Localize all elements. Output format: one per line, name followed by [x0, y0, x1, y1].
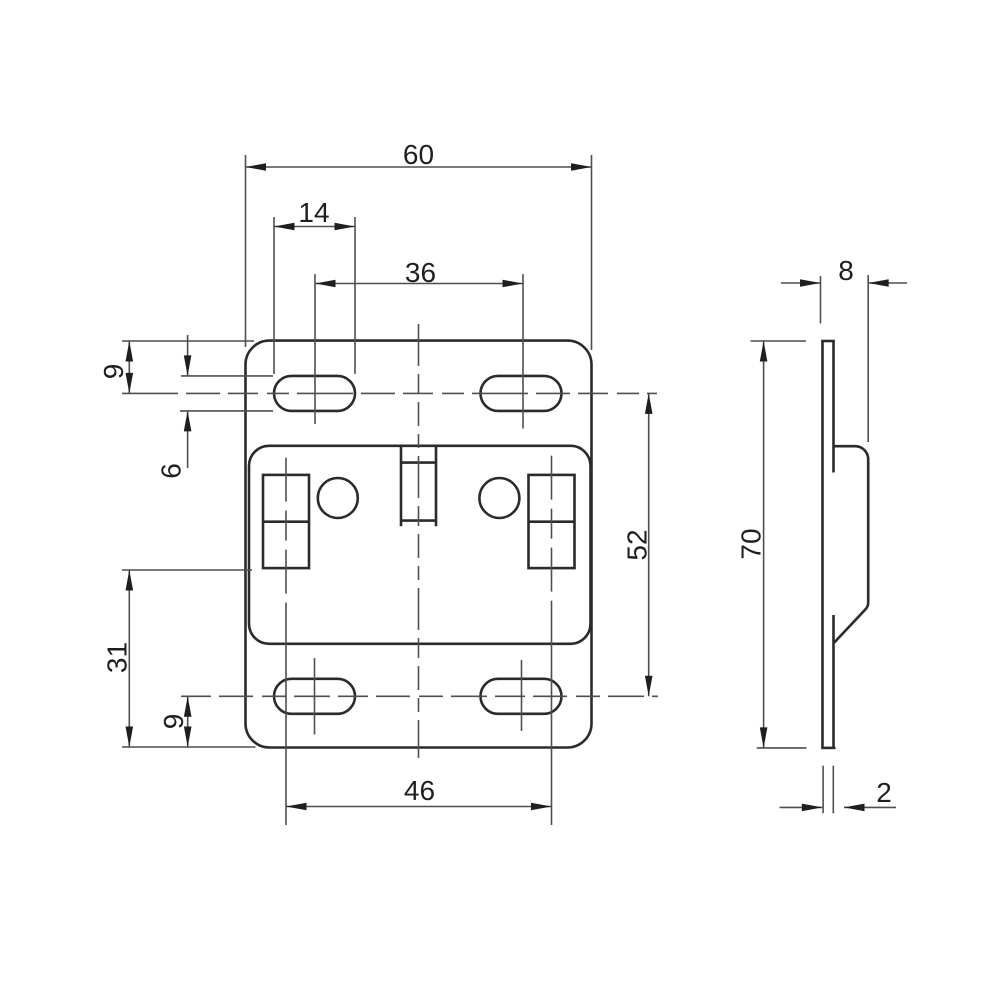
svg-text:52: 52 — [622, 529, 653, 560]
side view bottom cap — [821, 747, 835, 750]
svg-text:46: 46 — [404, 775, 435, 806]
dim 6 arrow tails — [187, 335, 189, 376]
slot top-left — [274, 376, 355, 411]
side view back face lower — [832, 615, 835, 748]
hole circle left — [318, 478, 358, 518]
arrows dim 46 — [286, 803, 307, 811]
dim 8 extension lines — [820, 276, 822, 324]
dim 31 line — [128, 570, 130, 747]
dim 9 top ticks — [122, 340, 254, 342]
center line bottom slots horizontal — [181, 695, 658, 697]
side view back face upper — [832, 341, 835, 473]
dim 46 line — [286, 806, 552, 808]
slot top-right — [481, 376, 562, 411]
dim 2 extension lines — [822, 766, 824, 814]
side view front face — [821, 341, 824, 748]
arrows dim 36 — [315, 280, 336, 288]
dim 52 line — [648, 393, 650, 696]
dim 2 arrow tails — [780, 806, 823, 808]
dim 6 ticks — [181, 375, 273, 377]
arrows dim 2 — [802, 804, 823, 812]
dim 70 ticks — [751, 340, 807, 342]
dim 60 line — [246, 166, 592, 168]
dim 31 ticks — [122, 569, 252, 571]
raised inner section outline — [249, 446, 591, 644]
dim 8 arrow tails — [781, 282, 821, 284]
arrows dim 31 — [126, 570, 134, 591]
arrows dim 14 — [274, 223, 295, 231]
right cutout divider — [529, 520, 575, 523]
arrows dim 52 — [645, 393, 653, 414]
center line right cutout dashed part — [551, 456, 553, 618]
slot bottom-right — [481, 679, 562, 714]
svg-text:36: 36 — [405, 257, 436, 288]
center line vertical main — [418, 324, 420, 758]
svg-text:70: 70 — [736, 528, 767, 559]
svg-text:6: 6 — [156, 463, 187, 479]
arrows dim 9 bottom — [184, 696, 192, 717]
slot cross bottom-right — [521, 660, 523, 731]
center line top slots horizontal — [122, 392, 657, 394]
middle tab bottom — [401, 519, 436, 522]
arrows dim 6 — [184, 355, 192, 376]
center line left cutout solid part — [285, 618, 287, 825]
dim 36 line — [315, 283, 523, 285]
arrows dim 60 — [246, 163, 267, 171]
side view bump profile — [834, 446, 869, 642]
dim 14 line — [274, 226, 355, 228]
svg-text:14: 14 — [298, 197, 329, 228]
middle tab sides — [400, 446, 403, 526]
dim 70 line — [763, 341, 765, 748]
svg-text:60: 60 — [403, 139, 434, 170]
plate outline front view — [246, 341, 592, 748]
left rectangular cutout — [263, 475, 309, 568]
right rectangular cutout — [529, 475, 575, 568]
svg-text:9: 9 — [158, 714, 189, 730]
dim 60 extension lines — [245, 155, 247, 347]
side view top cap — [821, 340, 835, 343]
slot bottom-left — [274, 679, 355, 714]
svg-text:31: 31 — [102, 642, 133, 673]
center line right cutout solid part — [551, 618, 553, 825]
svg-text:2: 2 — [876, 777, 892, 808]
middle tab divider — [401, 461, 436, 464]
dim 9 bottom line — [187, 696, 189, 747]
left cutout divider — [263, 520, 309, 523]
dim 36 extension lines through top slots — [314, 274, 316, 424]
hole circle right — [479, 478, 519, 518]
dim 9 top line — [128, 341, 130, 393]
svg-text:8: 8 — [838, 255, 854, 286]
center line left cutout dashed part — [285, 458, 287, 618]
arrows dim 9 top — [126, 341, 134, 362]
svg-text:9: 9 — [98, 364, 129, 380]
arrows dim 70 — [760, 341, 768, 362]
slot cross bottom-left — [314, 658, 316, 735]
arrows dim 8 — [800, 279, 821, 287]
dim 14 extension lines — [273, 217, 275, 374]
